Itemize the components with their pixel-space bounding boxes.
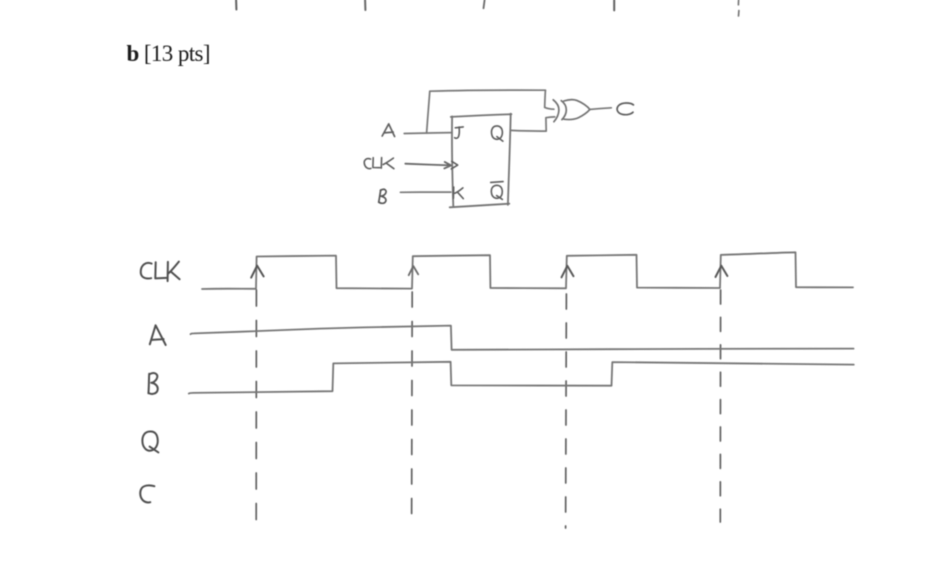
clock edge dashed line 2: [411, 290, 414, 523]
wire XOR output to C: [590, 108, 611, 110]
wire B to K pin: [400, 191, 451, 193]
svg-text:b [13 pts]: b [13 pts]: [127, 41, 210, 66]
clock edge dashed line 3: [565, 290, 568, 528]
A waveform: [191, 326, 854, 350]
rising edge arrow 4: [716, 266, 728, 277]
wire A to J pin: [404, 132, 452, 135]
pin label J: [455, 127, 464, 138]
rising edge arrow 3: [562, 266, 574, 278]
clock edge tick remnant 1 (top): [235, 0, 237, 10]
clock pin chevron: [451, 161, 457, 169]
wire CLK to clock pin with arrowhead: [405, 162, 451, 169]
JK flip-flop U1 box: [450, 114, 512, 208]
clock edge tick remnant 2 (top): [364, 0, 366, 10]
input label A (circuit): [382, 124, 394, 137]
wire Q output to XOR bottom input: [511, 117, 555, 131]
timing label A: [150, 325, 166, 345]
clock edge dashed line 1: [255, 290, 257, 520]
wire top horizontal over flip-flop: [430, 90, 546, 91]
rising edge arrow 2: [409, 266, 419, 275]
timing label Q: [142, 431, 158, 452]
XOR gate U2: [553, 100, 590, 122]
pin label K: [453, 187, 463, 199]
timing label B: [148, 373, 157, 394]
wire down to XOR top input: [544, 90, 547, 107]
pin label Qbar: [491, 182, 503, 200]
input label CLK (circuit): [364, 158, 394, 169]
rising edge arrow 1: [251, 266, 263, 278]
clock edge tick remnant 5 (top, dashed): [737, 0, 740, 16]
wire A branch vertical to top: [427, 91, 430, 133]
input label B (circuit): [379, 189, 386, 203]
pin label Q: [491, 126, 502, 141]
CLK waveform: [202, 252, 853, 289]
timing label CLK: [141, 262, 180, 282]
clock edge tick remnant 4 (top): [613, 0, 615, 10]
clock edge dashed line 4: [719, 290, 721, 522]
clock edge tick remnant 3 (top): [484, 0, 485, 8]
output label C: [617, 103, 633, 115]
B waveform: [189, 362, 854, 394]
timing label C: [140, 485, 154, 502]
wire hook into XOR top input: [545, 107, 554, 109]
